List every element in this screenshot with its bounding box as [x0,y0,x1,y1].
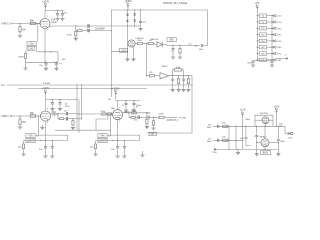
power +V6 [240,109,246,150]
triode V3A [41,109,59,124]
wire [89,30,112,31]
op-amp U1 [160,73,169,79]
ground [186,89,190,91]
resistor R32 [131,110,136,114]
ground [23,68,27,70]
diode D3 [133,10,136,16]
wire cathode V3A [45,121,47,141]
label coupling caps [95,28,105,30]
wire [142,43,148,44]
capacitor C5 coupling [88,24,89,27]
wire plate out V4A [122,112,147,113]
ground [71,127,75,129]
ground [151,128,155,130]
power rail 2 [111,9,207,10]
wire bus B [18,88,147,90]
wire [150,116,160,118]
ground [270,65,274,67]
ground [93,154,97,156]
ground [21,154,25,156]
power rail stage 4 [116,100,140,101]
resistor R33 [131,116,137,121]
svg-text:BIAS: BIAS [263,152,269,155]
wire branch lower [76,26,78,31]
callout V3A label [26,134,35,143]
triode V4A [111,107,131,123]
wire grid leak V4A [109,113,111,136]
wire link 4 [107,135,140,140]
label VCC6 [246,119,251,121]
wire [68,113,78,114]
resistor R15 4k7 [257,46,273,50]
power +V5 [112,88,120,101]
wire to C9 [186,43,200,46]
resistor R1 1M grid leak [19,24,26,36]
ground [50,108,54,110]
svg-text:220R: 220R [159,114,164,116]
resistor R8 feedback [173,67,184,76]
wire [219,125,223,127]
svg-text:3: 3 [47,30,48,32]
wire stub [96,114,108,130]
wire loop [255,115,273,126]
capacitor C12 [171,76,174,90]
wire [139,117,147,118]
ground [178,57,182,59]
svg-text:820R: 820R [18,56,24,58]
power tap arrow [276,55,288,60]
power rail stage 1 [45,10,63,11]
resistor R9 [178,76,180,90]
capacitor C31 1u [133,101,142,110]
wire return 2 [244,148,279,150]
resistor R23 [59,118,63,120]
capacitor C7 [170,46,174,57]
ground [276,154,280,156]
svg-text:7: 7 [41,114,42,116]
resistor R17 10k [257,58,273,62]
wire lower left [245,126,246,137]
wire plate out V3A [50,113,66,114]
capacitor C34 coupling [138,116,139,119]
svg-text:BUF1: BUF1 [162,66,168,68]
wire tap [111,50,127,52]
resistor R4 470k [67,31,77,38]
capacitor C40 coupling [146,113,151,119]
wire bottom return [217,148,244,150]
svg-text:INPUT_B: INPUT_B [2,115,13,118]
resistor R7 [148,40,153,44]
ground [43,156,47,158]
capacitor C52 [240,137,247,142]
ground [236,149,240,155]
svg-text:V1A: V1A [29,43,34,46]
wire [135,116,137,118]
wire plate V4A [117,101,119,110]
svg-text:100n: 100n [199,49,205,51]
node OUT terminal [285,126,293,139]
svg-text:6.3VAC: 6.3VAC [43,82,51,85]
diode chain D10-D17 [272,15,282,62]
wire [167,45,186,46]
capacitor C20 [49,100,54,109]
resistor R21 grid stopper [30,113,36,117]
transistor Q2 [260,136,270,146]
capacitor C24 coupling [64,110,68,115]
diode D5 [157,42,167,47]
node B2 label [108,99,111,101]
svg-text:IRF820: IRF820 [260,136,268,138]
svg-text:2: 2 [113,113,114,115]
resistor R8b [179,46,181,57]
resistor R11 1k [257,20,273,24]
svg-text:12AX7: 12AX7 [51,21,58,24]
power +V2 [124,0,132,10]
svg-text:V3A: V3A [28,135,33,138]
svg-text:V4A: V4A [100,135,105,138]
node to V2 labels [59,59,66,65]
resistor R42 [159,114,165,119]
resistor R22 [18,141,25,154]
capacitor C24b coupling [66,117,67,120]
capacitor C13 [182,76,185,90]
wire bus A [1,82,192,87]
svg-text:63V: 63V [62,59,66,61]
capacitor C23 [51,140,54,156]
resistor R31 [108,113,112,115]
resistor R51 [222,136,228,141]
power +V1 [42,1,50,11]
wire q2 conn [256,142,279,143]
diode D4 [133,16,136,27]
resistor R24 [72,118,74,127]
ground [116,156,120,158]
svg-text:2SK208: 2SK208 [260,113,268,115]
wire clamp join [128,25,141,26]
capacitor C51 [207,139,219,143]
label buffer [162,66,168,68]
capacitor C32 [111,141,119,156]
diode D2 [126,16,129,27]
resistor R3 820R [18,52,27,68]
wire plate output V1A [50,25,88,26]
ground [74,38,78,40]
ground [145,127,149,129]
svg-text:12AX7: 12AX7 [28,47,36,50]
svg-text:12AX7: 12AX7 [99,139,107,142]
capacitor C1 [54,11,59,19]
ground [177,89,181,91]
wire [164,116,177,118]
wire link stages [55,129,110,131]
wire from mixer [146,44,148,76]
resistor R13 2k2 [257,33,273,37]
wire right border [147,76,193,133]
wire grid leak V1A [37,23,38,42]
power +V7 [274,105,280,126]
label output [167,116,187,122]
resistor R4a [78,30,82,32]
svg-text:22n/630V: 22n/630V [95,28,105,30]
wire branch lower 3 [58,114,59,119]
wire grid leak V3A [37,115,39,136]
power rail stage 3 [46,99,78,100]
svg-text:450V: 450V [65,106,70,108]
svg-text:6: 6 [47,109,48,111]
capacitor C50 [207,125,219,129]
svg-text:8: 8 [47,122,48,124]
svg-text:INPUT_A: INPUT_A [2,22,13,25]
wire join out [146,113,148,118]
svg-text:PSU: PSU [213,152,218,154]
power +V3 [255,2,260,14]
ground [40,125,44,129]
ground [124,110,128,112]
wire riser 1 [76,84,77,130]
capacitor C3 22u [39,62,47,68]
resistor R20 1M [19,116,26,127]
wire [64,118,66,120]
svg-text:LND150_MU_STAGE: LND150_MU_STAGE [163,2,187,5]
ground [122,156,126,158]
svg-text:1M: 1M [22,30,25,32]
svg-text:TO_PA: TO_PA [179,116,186,119]
ground [171,89,175,91]
svg-text:OUTPUT_1: OUTPUT_1 [167,120,180,122]
wire feedback tap [36,51,58,62]
wire ladder bottom [253,60,272,61]
svg-text:1M: 1M [22,122,25,124]
ground [55,19,59,21]
svg-text:REG: REG [246,119,251,121]
capacitor C9 coupling [199,44,205,51]
capacitor C21 1u [59,100,71,109]
resistor R10 1k [257,14,273,18]
resistor R34 [90,141,97,154]
wire grid V2 [127,26,128,52]
callout V4A label [98,134,107,143]
capacitor C33 [123,140,126,156]
svg-text:3: 3 [119,121,120,123]
wire cathode bus 3 [24,140,68,141]
label right upper [279,123,283,128]
title text [163,2,187,5]
svg-text:V2A: V2A [121,49,126,52]
wire rail2 left drop [111,10,112,97]
wire row2 [213,140,243,141]
wire branch lower 4 [129,113,131,118]
wire [219,139,223,141]
capacitor C54 [277,139,286,153]
resistor R41 [152,117,154,128]
wire [127,51,129,58]
wire cathode V2 [133,47,135,59]
wire cathode bus 4 [96,140,140,141]
wire riser [203,10,208,46]
resistor R6 100k [137,40,143,44]
wire plate V3A [45,100,47,111]
wire riser 2 [81,84,82,118]
wire q2 drain [264,126,265,139]
ground [255,154,259,156]
callout V2 label [120,49,128,53]
ground [58,108,62,110]
capacitor C11 [271,61,274,65]
triode V1A [40,16,58,31]
wire riser b [235,126,236,150]
wire [36,23,40,25]
svg-text:10k: 10k [134,120,137,122]
svg-text:0V: 0V [151,134,154,136]
wire link [35,135,68,140]
ground [131,59,135,61]
svg-text:400V: 400V [207,127,212,129]
resistor R12 1k5 [257,27,273,31]
wire anode V2 out [135,43,137,45]
callout V1A tube label [27,42,36,51]
ground [181,89,185,91]
capacitor C53 [253,135,259,153]
svg-text:V1A: V1A [51,19,56,22]
label net B+ [195,46,198,48]
transistor Q1 [255,113,273,127]
wire [153,44,157,45]
ground [50,156,54,158]
capacitor C30 [122,101,128,110]
capacitor C5b coupling [88,29,89,32]
wire lower right [277,126,279,138]
power +V4 [42,87,50,100]
triode V2 [128,38,144,47]
svg-text:1: 1 [47,16,48,18]
node input B [2,115,41,118]
resistor R40 [146,116,148,127]
wire main line PSU [213,126,281,127]
svg-text:12AX7: 12AX7 [27,139,35,142]
node out labels [136,107,139,109]
ground [18,36,22,38]
svg-text:400V: 400V [207,141,212,143]
wire out stub [281,125,286,127]
svg-text:MIX: MIX [170,39,175,41]
callout mix label [167,38,176,42]
wire [89,25,128,26]
wire plate V1A [44,11,46,19]
resistor R50 [222,122,228,127]
wire ladder right [271,17,273,61]
ground [44,68,48,70]
diode D1 [126,10,129,16]
wire riser a [228,126,229,150]
ground [18,127,22,129]
arrow to PSU [213,148,218,154]
svg-text:2: 2 [40,21,41,23]
wire q2 source [264,147,265,150]
svg-text:OUT: OUT [288,138,293,140]
wire ladder left [256,14,258,61]
wire riser 3 [78,100,80,133]
svg-text:1N4148: 1N4148 [151,39,159,41]
resistor R18 [187,76,189,90]
ground [54,68,58,70]
wire grid V4 [78,113,112,114]
ground [132,110,136,112]
ground [138,28,142,30]
ground [171,57,175,59]
node input A [2,22,41,25]
resistor R30 [101,111,107,115]
capacitor C4 1u [55,62,58,68]
resistor R2 68k grid stopper [30,21,36,25]
capacitor C22 [39,141,47,156]
callout ground label [149,132,156,136]
wire [68,118,83,119]
capacitor C2 1u [61,11,68,19]
node aux [140,151,144,157]
wire lower mid [256,126,258,134]
svg-text:V4A: V4A [111,107,116,110]
resistor R19 [149,72,154,77]
label D5 [151,39,159,41]
wire buffer in [146,75,160,76]
ground [125,59,129,61]
wire cathode V4A [117,120,119,141]
capacitor C10 100n [247,61,254,65]
wire cathode V1A [44,29,45,63]
wire [246,143,251,146]
wire buffer out [169,75,192,76]
resistor R16 6k8 [257,52,273,56]
wire [82,30,88,32]
callout Q2 label [260,151,270,155]
resistor R14 3k3 [257,39,273,43]
ground [60,19,64,21]
svg-text:1: 1 [119,107,120,109]
svg-text:out: out [189,43,192,46]
ground [251,65,255,67]
wire cathode bus 1 [26,62,59,63]
capacitor C6 10n [139,10,147,28]
